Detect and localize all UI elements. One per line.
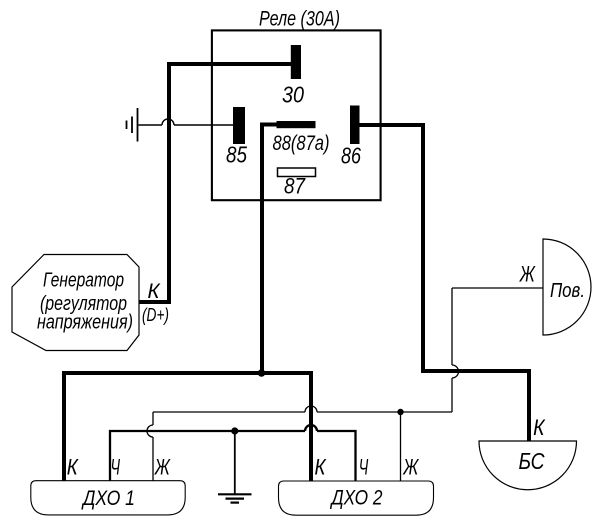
svg-text:ДХО 1: ДХО 1 [81, 487, 135, 510]
svg-text:30: 30 [282, 82, 304, 108]
svg-text:напряжения): напряжения) [37, 311, 133, 334]
svg-text:Реле (30А): Реле (30А) [259, 8, 340, 31]
svg-text:(D+): (D+) [142, 304, 169, 325]
svg-text:К: К [148, 280, 162, 303]
svg-text:ДХО 2: ДХО 2 [330, 487, 383, 510]
svg-text:87: 87 [284, 174, 306, 199]
svg-text:К: К [67, 455, 79, 480]
svg-text:Ж: Ж [402, 455, 419, 480]
svg-text:Ж: Ж [154, 455, 171, 480]
svg-text:85: 85 [226, 142, 247, 168]
svg-text:88(87а): 88(87а) [273, 132, 330, 155]
svg-text:Ч: Ч [359, 455, 369, 480]
svg-text:Генератор: Генератор [43, 269, 124, 292]
svg-text:БС: БС [519, 448, 545, 474]
svg-text:86: 86 [341, 143, 361, 169]
svg-text:Ж: Ж [519, 262, 536, 287]
svg-text:Ч: Ч [110, 455, 120, 480]
svg-text:Пов.: Пов. [550, 280, 585, 302]
svg-text:К: К [315, 455, 327, 480]
svg-text:К: К [533, 415, 545, 440]
